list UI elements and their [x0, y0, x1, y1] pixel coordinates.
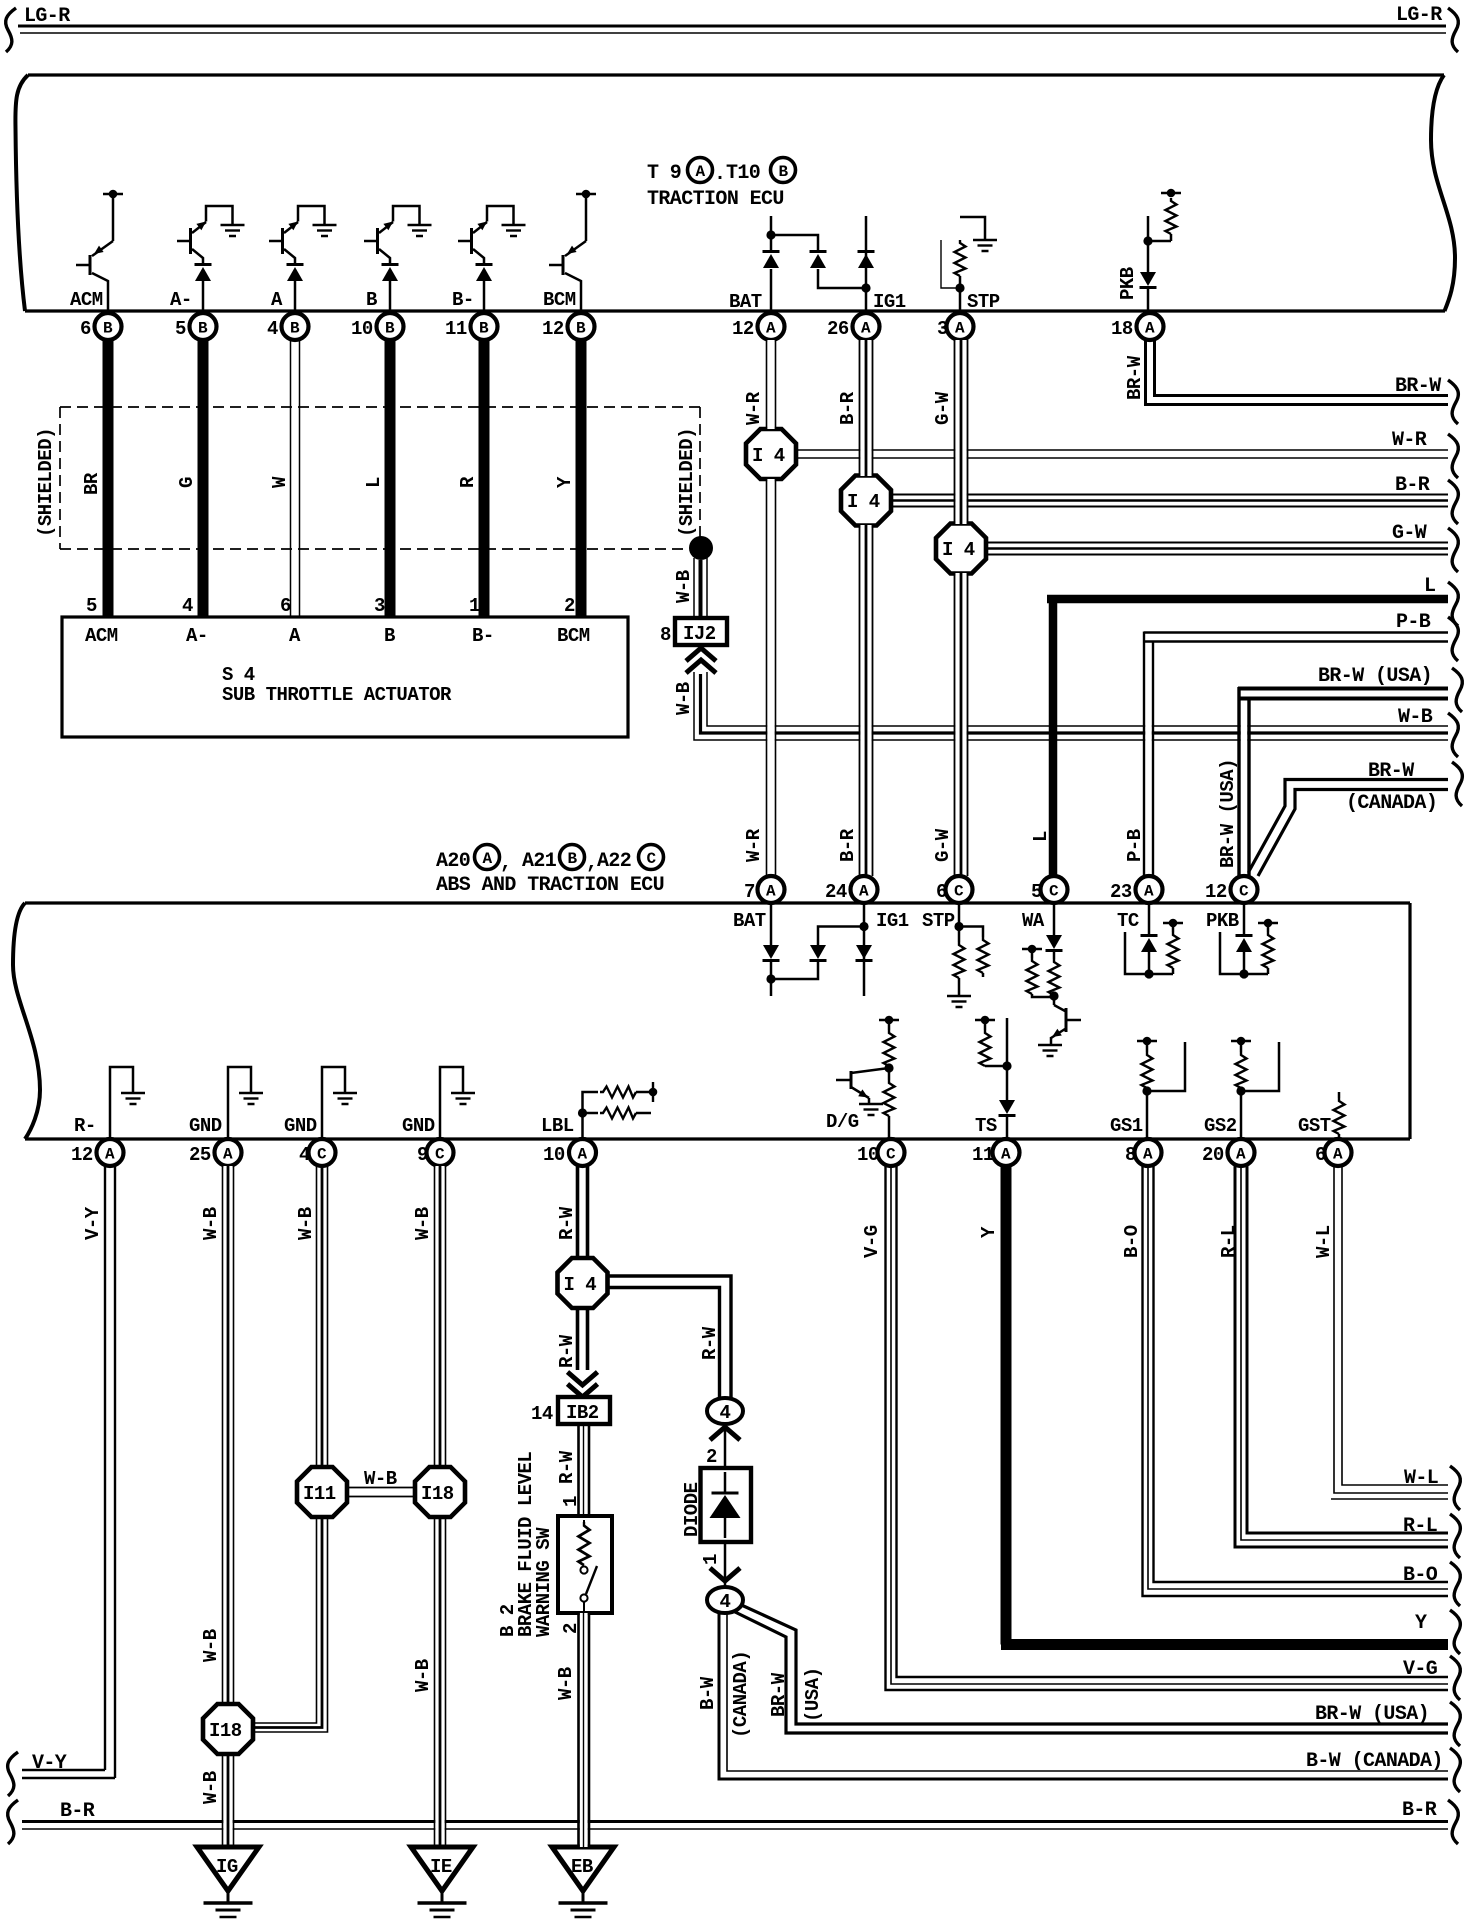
- svg-text:G: G: [176, 477, 198, 488]
- diode at BAT pin 7A (ABS ECU): [763, 904, 780, 996]
- svg-text:I18: I18: [421, 1483, 454, 1505]
- svg-text:I 4: I 4: [564, 1274, 597, 1296]
- junction connector I 4 (G-W): [936, 524, 986, 574]
- transistor ACM (in T9 ECU): [76, 190, 123, 311]
- wire BR (thick, ACM to actuator 5): [103, 340, 114, 618]
- svg-text:W-B: W-B: [412, 1659, 434, 1692]
- svg-text:B-R: B-R: [837, 828, 859, 862]
- svg-text:BAT: BAT: [729, 291, 762, 313]
- break symbol right (L): [1448, 582, 1458, 626]
- svg-text:A21: A21: [522, 850, 557, 873]
- ECU A20/A21/A22 box (ABS AND TRACTION ECU): [13, 903, 1410, 1139]
- svg-text:BAT: BAT: [733, 910, 766, 932]
- pin 24(A) of ABS ECU: [825, 876, 878, 903]
- svg-text:12: 12: [71, 1144, 93, 1166]
- svg-text:WA: WA: [1022, 910, 1045, 932]
- pin 11(A) bottom of ABS ECU: [972, 1139, 1020, 1166]
- svg-text:EB: EB: [571, 1856, 593, 1878]
- junction connector I 4 (B-R): [841, 476, 891, 526]
- svg-text:WARNING SW: WARNING SW: [533, 1527, 555, 1637]
- wire B-R vertical (26A to 24A through I4): [860, 340, 873, 876]
- svg-text:8: 8: [660, 624, 671, 646]
- svg-text:B-: B-: [452, 289, 474, 311]
- chevron arrows into IB2: [568, 1372, 598, 1385]
- break symbol right (G-W): [1448, 528, 1458, 572]
- junction connector I11: [297, 1467, 347, 1517]
- break symbol right (LG-R): [1448, 8, 1458, 52]
- pin 12(B) of T9 ECU: [542, 313, 595, 340]
- wire W-R horizontal (I4 to right edge): [793, 450, 1448, 458]
- wire R-W (I4 right to 4-circle): [607, 1276, 731, 1398]
- pin 26(A) of T9 ECU: [827, 313, 880, 340]
- break symbol right (Y): [1450, 1610, 1460, 1654]
- break symbol right (B-R bottom): [1448, 1800, 1458, 1844]
- svg-text:IB2: IB2: [566, 1402, 599, 1424]
- wire W-B (blob to IJ2): [694, 558, 707, 618]
- svg-text:9: 9: [417, 1144, 428, 1166]
- svg-text:G-W: G-W: [1392, 522, 1427, 545]
- svg-text:24: 24: [825, 881, 847, 903]
- wire Y thick (11A to right edge): [1001, 1166, 1448, 1645]
- wire R (thick, B- to actuator 1): [479, 340, 490, 618]
- svg-text:R-L: R-L: [1218, 1225, 1240, 1258]
- svg-text:GND: GND: [189, 1115, 222, 1137]
- svg-text:6: 6: [936, 881, 947, 903]
- svg-text:A: A: [696, 163, 706, 181]
- wire W-R vertical (12A to 7A through I4): [767, 340, 776, 876]
- svg-text:A: A: [483, 850, 493, 868]
- svg-text:A: A: [859, 883, 869, 901]
- svg-text:A-: A-: [186, 625, 208, 647]
- svg-text:3: 3: [937, 318, 948, 340]
- svg-text:IG: IG: [216, 1856, 238, 1878]
- diode at IG1 pin 24A (ABS ECU): [856, 904, 873, 996]
- wire G-W horizontal (I4 to right edge): [983, 543, 1448, 555]
- svg-text:IG1: IG1: [876, 910, 909, 932]
- diode symbol inside DIODE box: [710, 1472, 741, 1538]
- svg-text:BR-W (USA): BR-W (USA): [1318, 665, 1432, 688]
- svg-text:I 4: I 4: [942, 539, 975, 561]
- svg-text:11: 11: [445, 318, 467, 340]
- svg-text:20: 20: [1202, 1144, 1224, 1166]
- pin 7(A) of ABS ECU: [744, 876, 785, 903]
- svg-text:D/G: D/G: [826, 1111, 859, 1133]
- svg-text:B-R: B-R: [1402, 1799, 1437, 1822]
- svg-text:V-G: V-G: [1403, 1658, 1438, 1681]
- svg-text:PKB: PKB: [1206, 910, 1239, 932]
- svg-text:R: R: [457, 476, 479, 488]
- svg-text:R-L: R-L: [1403, 1515, 1437, 1538]
- wire V-G (10C to right edge): [886, 1166, 1449, 1690]
- svg-text:W-L: W-L: [1404, 1467, 1438, 1490]
- svg-text:1: 1: [560, 1496, 582, 1507]
- transistor+diode A (in T9 ECU): [269, 206, 337, 311]
- transistor+diode B (in T9 ECU): [364, 206, 432, 311]
- svg-text:A: A: [271, 289, 283, 311]
- svg-text:P-B: P-B: [1124, 829, 1146, 862]
- junction connector IB2 (pin 14): [531, 1397, 610, 1425]
- wire Y (thick, BCM to actuator 2): [576, 340, 587, 618]
- svg-text:I 4: I 4: [847, 491, 880, 513]
- pin 9(C) bottom of ABS ECU: [417, 1139, 454, 1166]
- svg-text:PKB: PKB: [1117, 267, 1139, 300]
- svg-text:C: C: [435, 1146, 445, 1164]
- pin 5(B) of T9 ECU: [175, 313, 217, 340]
- svg-text:Y: Y: [978, 1226, 1000, 1238]
- wire W-B vertical (25A to I18 to IG ground): [223, 1166, 234, 1847]
- break symbol left (B-R): [8, 1800, 18, 1844]
- svg-text:I11: I11: [303, 1483, 336, 1505]
- wire B-W (CANADA) horizontal: [719, 1612, 1448, 1779]
- wire P-B vertical (to 23A): [1144, 632, 1153, 877]
- svg-text:LG-R: LG-R: [1396, 4, 1442, 27]
- ground bracket at R- pin 12A (ABS ECU): [110, 1067, 145, 1139]
- svg-text:23: 23: [1110, 881, 1132, 903]
- transistor BCM (in T9 ECU): [549, 190, 596, 311]
- pin 4(B) of T9 ECU: [267, 313, 309, 340]
- resistor + bracket at GS1 pin 8A (ABS ECU): [1137, 1037, 1185, 1139]
- svg-text:C: C: [886, 1146, 896, 1164]
- svg-text:C: C: [1239, 883, 1249, 901]
- break symbol right (B-W CANADA): [1450, 1748, 1460, 1792]
- svg-text:W-B: W-B: [673, 570, 695, 603]
- svg-text:ACM: ACM: [70, 289, 103, 311]
- resistors at LBL pin 10A (ABS ECU): [578, 1082, 657, 1139]
- svg-text:T 9: T 9: [647, 162, 681, 185]
- wire B-R horizontal (I4 to right edge): [888, 495, 1448, 507]
- svg-text:V-Y: V-Y: [82, 1206, 104, 1240]
- break symbol right (W-R): [1448, 434, 1458, 478]
- svg-text:L: L: [1424, 575, 1435, 598]
- junction connector I 4 (W-R): [746, 429, 796, 479]
- resistors + transistor at D/G pin 10C (ABS ECU): [879, 1016, 899, 1139]
- svg-text:BCM: BCM: [557, 625, 590, 647]
- chevron arrows below IJ2: [686, 648, 716, 661]
- pin 4(C) bottom of ABS ECU: [299, 1139, 336, 1166]
- svg-text:L: L: [363, 477, 385, 488]
- svg-text:V-Y: V-Y: [32, 1752, 67, 1775]
- svg-text:B: B: [384, 625, 395, 647]
- svg-text:G-W: G-W: [932, 391, 954, 425]
- DIODE box: [701, 1468, 752, 1542]
- second diode BAT->IG1 (T9 ECU): [771, 235, 864, 288]
- diode + resistors + transistor at WA pin 5C (ABS ECU): [1022, 904, 1063, 1005]
- pin 12(A) of T9 ECU: [732, 313, 785, 340]
- svg-text:B-R: B-R: [837, 391, 859, 425]
- svg-text:BR-W: BR-W: [1395, 375, 1441, 398]
- svg-text:TS: TS: [975, 1115, 997, 1137]
- transistor at WA (ABS ECU): [1038, 1005, 1081, 1056]
- break symbol right (BR-W): [1448, 380, 1458, 424]
- svg-text:C: C: [317, 1146, 327, 1164]
- svg-text:4: 4: [720, 1591, 731, 1613]
- svg-text:5: 5: [1031, 881, 1042, 903]
- svg-text:1: 1: [700, 1554, 722, 1565]
- svg-text:4: 4: [299, 1144, 310, 1166]
- svg-text:B: B: [290, 320, 300, 338]
- svg-text:STP: STP: [967, 291, 1000, 313]
- S4 sub throttle actuator box: [62, 617, 628, 737]
- wire R-W vertical (10A to I4): [578, 1166, 588, 1258]
- svg-text:R-W: R-W: [699, 1326, 721, 1360]
- svg-text:IJ2: IJ2: [683, 623, 716, 645]
- svg-text:B-: B-: [472, 625, 494, 647]
- break symbol right (R-L): [1450, 1514, 1460, 1558]
- break symbol left (LG-R): [6, 8, 16, 52]
- svg-text:8: 8: [1125, 1144, 1136, 1166]
- svg-text:GND: GND: [284, 1115, 317, 1137]
- pin 6(C) of ABS ECU: [936, 876, 973, 903]
- ECU T9/T10 box (TRACTION ECU): [15, 75, 1455, 311]
- svg-text:A-: A-: [170, 289, 192, 311]
- svg-text:6: 6: [80, 318, 91, 340]
- diode + resistor at PKB pin 12C (ABS ECU): [1220, 904, 1278, 979]
- svg-text:B: B: [568, 850, 578, 868]
- wire W-L (6A to right edge): [1331, 1166, 1448, 1499]
- diode at BAT pin 12A (T9 ECU): [763, 216, 780, 311]
- svg-text:B-W: B-W: [697, 1676, 719, 1710]
- svg-text:A: A: [289, 625, 301, 647]
- svg-text:A: A: [766, 883, 776, 901]
- break symbol right (W-B): [1448, 713, 1458, 757]
- pin 3(A) of T9 ECU: [937, 313, 974, 340]
- svg-text:IE: IE: [430, 1856, 452, 1878]
- resistor + diode at PKB pin 18A (T9 ECU): [1140, 189, 1182, 311]
- pin 12(A) bottom of ABS ECU: [71, 1139, 124, 1166]
- break symbol right (P-B): [1448, 617, 1458, 661]
- svg-text:B: B: [366, 289, 377, 311]
- svg-text:(CANADA): (CANADA): [730, 1651, 752, 1738]
- svg-text:(CANADA): (CANADA): [1346, 792, 1437, 815]
- svg-text:G-W: G-W: [932, 828, 954, 862]
- svg-text:R-W: R-W: [556, 1334, 578, 1368]
- svg-text:IG1: IG1: [873, 291, 906, 313]
- svg-text:BR-W: BR-W: [1368, 760, 1414, 783]
- pin 20(A) bottom of ABS ECU: [1202, 1139, 1255, 1166]
- svg-text:6: 6: [280, 595, 291, 617]
- svg-text:10: 10: [543, 1144, 565, 1166]
- ground bracket at GND pin 9C (ABS ECU): [440, 1067, 475, 1139]
- svg-text:B: B: [385, 320, 395, 338]
- wire W-B vertical (4C through I11, bend to I18): [253, 1166, 328, 1732]
- svg-text:A: A: [223, 1146, 233, 1164]
- svg-text:2: 2: [706, 1446, 717, 1468]
- svg-text:10: 10: [351, 318, 373, 340]
- wire R-W (IB2 to switch pin 1): [579, 1424, 590, 1516]
- svg-text:SUB THROTTLE ACTUATOR: SUB THROTTLE ACTUATOR: [222, 684, 452, 706]
- pin 25(A) bottom of ABS ECU: [189, 1139, 242, 1166]
- shield drain blob (solder point): [689, 536, 713, 560]
- svg-text:B: B: [576, 320, 586, 338]
- wire G-W vertical (3A to 6C through I4): [955, 340, 968, 876]
- svg-text:A: A: [766, 320, 776, 338]
- wire R-W vertical (I4 down to IB2): [578, 1308, 588, 1370]
- svg-text:10: 10: [857, 1144, 879, 1166]
- svg-text:4: 4: [720, 1402, 731, 1424]
- resistor + bracket at GS2 pin 20A (ABS ECU): [1231, 1037, 1279, 1139]
- wire V-Y vertical (12A down): [105, 1166, 115, 1778]
- pin 10(A) bottom of ABS ECU: [543, 1139, 596, 1166]
- svg-text:LBL: LBL: [541, 1115, 574, 1137]
- wire B-R bottom horizontal: [22, 1822, 1448, 1830]
- wire W-B vertical (9C through I18 to IE ground): [435, 1166, 446, 1847]
- svg-text:W-B: W-B: [673, 682, 695, 715]
- svg-text:A: A: [1144, 883, 1154, 901]
- svg-text:GST: GST: [1298, 1115, 1331, 1137]
- svg-text:GND: GND: [402, 1115, 435, 1137]
- resistor + ground at STP pin 3A (T9 ECU): [941, 217, 997, 311]
- svg-text:B-R: B-R: [1395, 474, 1430, 497]
- resistor at GST pin 6A (ABS ECU): [1334, 1092, 1345, 1139]
- wire BR-W (PKB 18A to right edge): [1146, 340, 1449, 405]
- wire L vertical (thick, to 5C): [1049, 595, 1058, 876]
- svg-text:BR-W (USA): BR-W (USA): [1217, 759, 1239, 868]
- svg-text:C: C: [1049, 883, 1059, 901]
- wire BR-W (USA) bottom: diagonal + vertical + horizontal: [731, 1603, 1448, 1733]
- connector circle 4 (upper): [707, 1398, 743, 1424]
- svg-text:R-: R-: [74, 1115, 96, 1137]
- ground triangle IG: [197, 1847, 259, 1917]
- junction connector IJ2 (pin 8): [660, 618, 727, 646]
- svg-text:W: W: [269, 476, 291, 488]
- svg-text:W-B: W-B: [295, 1207, 317, 1240]
- svg-text:25: 25: [189, 1144, 211, 1166]
- svg-text:W-R: W-R: [1392, 429, 1427, 452]
- svg-text:W-B: W-B: [364, 1468, 397, 1490]
- svg-text:26: 26: [827, 318, 849, 340]
- svg-text:(USA): (USA): [802, 1667, 824, 1722]
- svg-text:W-B: W-B: [412, 1207, 434, 1240]
- wire R-L (20A to right edge): [1235, 1166, 1448, 1547]
- svg-text:A: A: [861, 320, 871, 338]
- wire L (thick, B to actuator 3): [385, 340, 396, 618]
- pin 10(C) bottom of ABS ECU: [857, 1139, 905, 1166]
- wire G (thick, A- to actuator 4): [198, 340, 209, 618]
- pin 8(A) bottom of ABS ECU: [1125, 1139, 1162, 1166]
- svg-text:ACM: ACM: [85, 625, 118, 647]
- svg-text:3: 3: [374, 595, 385, 617]
- wire W (thin pair, A to actuator 6): [291, 340, 300, 618]
- break symbol right (W-L): [1450, 1466, 1460, 1510]
- pin 6(A) bottom of ABS ECU: [1315, 1139, 1352, 1166]
- break symbol right (B-R): [1448, 480, 1458, 524]
- ground bracket at GND pin 4C (ABS ECU): [322, 1067, 357, 1139]
- svg-text:B-O: B-O: [1403, 1564, 1438, 1587]
- svg-text:1: 1: [469, 595, 480, 617]
- svg-text:,: ,: [586, 852, 597, 875]
- label T 9 (A) . T10 (B): [647, 158, 796, 212]
- resistor + switch contact inside B2: [579, 1520, 598, 1613]
- svg-text:BR: BR: [81, 472, 103, 495]
- pin 5(C) of ABS ECU: [1031, 876, 1068, 903]
- svg-text:S 4: S 4: [222, 664, 255, 686]
- svg-text:V-G: V-G: [861, 1225, 883, 1258]
- svg-text:TC: TC: [1117, 910, 1139, 932]
- resistor + diode at TS pin 11A (ABS ECU): [975, 1016, 1016, 1139]
- wire BR-W (USA) vertical (to 12C): [1239, 687, 1249, 876]
- svg-text:W-B: W-B: [200, 1207, 222, 1240]
- svg-text:DIODE: DIODE: [681, 1482, 703, 1537]
- svg-text:Y: Y: [554, 476, 576, 488]
- svg-text:TRACTION ECU: TRACTION ECU: [647, 188, 784, 211]
- svg-text:T10: T10: [726, 162, 760, 185]
- shield dashed box (sub throttle harness): [60, 407, 700, 549]
- svg-text:12: 12: [542, 318, 564, 340]
- svg-text:GS2: GS2: [1204, 1115, 1237, 1137]
- resistor + ground at STP pin 6C (ABS ECU): [947, 904, 989, 1007]
- svg-text:(SHIELDED): (SHIELDED): [35, 428, 57, 537]
- svg-text:12: 12: [732, 318, 754, 340]
- svg-text:B-W (CANADA): B-W (CANADA): [1306, 1750, 1443, 1773]
- transistor at D/G (ABS ECU): [836, 1068, 889, 1115]
- wire W-B between I11 and I18: [347, 1488, 415, 1497]
- svg-text:4: 4: [182, 595, 193, 617]
- svg-text:ABS AND TRACTION ECU: ABS AND TRACTION ECU: [436, 874, 664, 897]
- junction connector I18 (upper): [415, 1467, 465, 1517]
- wire L horizontal (thick, to right edge): [1047, 595, 1448, 604]
- svg-text:5: 5: [86, 595, 97, 617]
- junction connector I18 (lower): [203, 1704, 253, 1754]
- wire + chevron arrow down (to circle 4 lower): [724, 1542, 727, 1586]
- break symbol right (BR-W CANADA): [1452, 762, 1462, 806]
- wire P-B horizontal (to right edge): [1144, 633, 1448, 642]
- svg-text:A: A: [578, 1146, 588, 1164]
- svg-text:STP: STP: [922, 910, 955, 932]
- svg-text:A: A: [1143, 1146, 1153, 1164]
- svg-text:LG-R: LG-R: [24, 5, 70, 28]
- svg-text:5: 5: [175, 318, 186, 340]
- wire BR-W (CANADA) horizontal + diagonal to pin 12C: [1248, 780, 1448, 877]
- transistor+diode B- (in T9 ECU): [458, 206, 526, 311]
- break symbol right (BR-W USA bottom): [1450, 1702, 1460, 1746]
- svg-text:A22: A22: [597, 850, 631, 873]
- svg-text:W-B: W-B: [555, 1667, 577, 1700]
- label A20(A),A21(B),A22(C): [436, 845, 664, 876]
- svg-text:B: B: [779, 163, 789, 181]
- svg-text:4: 4: [267, 318, 278, 340]
- ground triangle EB: [552, 1847, 614, 1917]
- svg-text:I 4: I 4: [752, 445, 785, 467]
- svg-text:R-W: R-W: [556, 1450, 578, 1484]
- svg-text:A20: A20: [436, 850, 470, 873]
- svg-text:R-W: R-W: [556, 1206, 578, 1240]
- break symbol right (V-G): [1450, 1656, 1460, 1700]
- svg-text:18: 18: [1111, 318, 1133, 340]
- wire V-Y horizontal (to left margin): [22, 1770, 115, 1778]
- svg-text:W-L: W-L: [1313, 1225, 1335, 1258]
- pin 6(B) of T9 ECU: [80, 313, 122, 340]
- svg-text:W-B: W-B: [200, 1771, 222, 1804]
- svg-text:A: A: [955, 320, 965, 338]
- wire W-B (switch pin 2 to EB ground): [579, 1613, 590, 1847]
- svg-text:11: 11: [972, 1144, 994, 1166]
- svg-text:A: A: [1145, 320, 1155, 338]
- svg-text:B: B: [103, 320, 113, 338]
- svg-text:B: B: [198, 320, 208, 338]
- pin 10(B) of T9 ECU: [351, 313, 404, 340]
- svg-text:W-R: W-R: [743, 828, 765, 862]
- svg-text:A: A: [1236, 1146, 1246, 1164]
- svg-text:BR-W (USA): BR-W (USA): [1315, 1703, 1429, 1726]
- svg-text:Y: Y: [1415, 1612, 1427, 1635]
- svg-text:(SHIELDED): (SHIELDED): [676, 428, 698, 537]
- connector circle 4 (lower): [707, 1587, 743, 1613]
- svg-text:W-B: W-B: [1398, 706, 1433, 729]
- ground bracket at GND pin 25A (ABS ECU): [228, 1067, 263, 1139]
- break symbol right (BR-W USA): [1452, 668, 1462, 712]
- svg-text:A: A: [1333, 1146, 1343, 1164]
- wire BR-W (USA) horizontal (to right edge): [1238, 689, 1448, 699]
